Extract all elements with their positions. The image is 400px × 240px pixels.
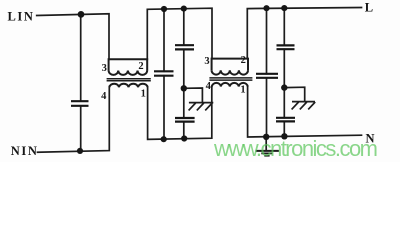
svg-text:NIN: NIN [11,144,39,158]
svg-text:3: 3 [102,63,107,74]
svg-text:3: 3 [204,56,209,67]
svg-text:www.cntronics.com: www.cntronics.com [213,136,378,161]
svg-text:LIN: LIN [8,10,35,24]
svg-text:1: 1 [141,89,146,100]
svg-text:1: 1 [240,84,245,95]
svg-text:2: 2 [241,55,246,66]
svg-text:4: 4 [101,91,107,102]
svg-text:2: 2 [138,61,143,72]
svg-text:4: 4 [206,81,212,92]
svg-text:L: L [365,0,373,14]
